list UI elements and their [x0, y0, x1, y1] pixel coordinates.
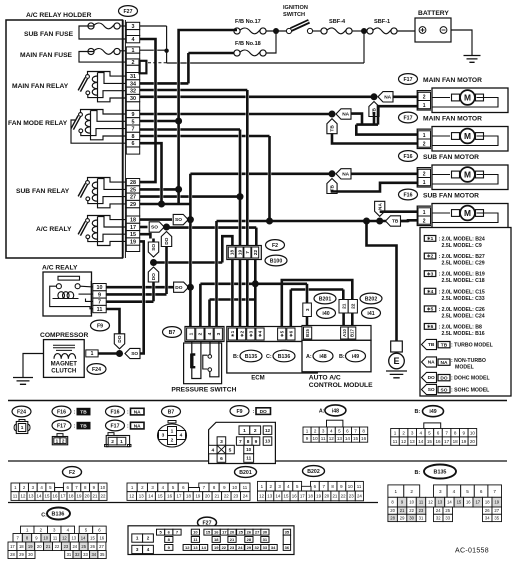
- svg-text:26: 26: [247, 530, 252, 535]
- NA arrow sub fan 2 (down): [375, 201, 385, 216]
- svg-text:3: 3: [132, 24, 135, 30]
- svg-text:M: M: [464, 170, 471, 180]
- svg-text:A:: A:: [306, 354, 312, 360]
- junction dot pin17: [163, 224, 170, 231]
- svg-text:∗4: ∗4: [258, 330, 263, 337]
- svg-text:C:: C:: [266, 354, 272, 360]
- svg-text:16: 16: [292, 494, 297, 499]
- svg-text:AC-01558: AC-01558: [455, 548, 489, 555]
- svg-text:13: 13: [71, 535, 76, 540]
- svg-text:DO: DO: [260, 409, 267, 415]
- svg-text:A/C REALY: A/C REALY: [42, 265, 78, 272]
- svg-text:2: 2: [423, 95, 426, 101]
- svg-text:14: 14: [418, 439, 424, 444]
- svg-text:6: 6: [220, 456, 223, 462]
- svg-text:13: 13: [193, 545, 198, 550]
- pressure switch contact 1-2: [191, 342, 193, 355]
- legend item DO dohc model: [422, 372, 437, 382]
- svg-text:NA: NA: [134, 423, 141, 429]
- svg-text:3: 3: [136, 547, 139, 552]
- svg-text:12: 12: [62, 535, 67, 540]
- svg-text:8: 8: [454, 430, 457, 435]
- wire NA chain to sub fan motor 1 pin2: [351, 173, 419, 176]
- svg-text:34: 34: [130, 81, 136, 87]
- svg-text:CLUTCH: CLUTCH: [51, 367, 76, 374]
- svg-text:F24: F24: [92, 367, 101, 373]
- svg-text:10: 10: [409, 500, 414, 505]
- svg-text:9: 9: [306, 436, 309, 441]
- holder pins 28,25,27,29 (sub fan relay): [126, 179, 139, 186]
- ECM pin row: [227, 327, 317, 342]
- TB arrow sub fan 2 (left): [386, 216, 401, 226]
- connector view F27 (bottom): [198, 517, 217, 528]
- svg-text:7: 7: [354, 429, 357, 434]
- connector oval i41: [362, 308, 381, 319]
- connector oval F24: [87, 364, 106, 375]
- svg-text:16: 16: [167, 494, 172, 499]
- svg-text:19: 19: [461, 439, 467, 444]
- svg-text:BATTERY: BATTERY: [418, 10, 449, 17]
- svg-text:20: 20: [470, 439, 476, 444]
- svg-text:16: 16: [361, 436, 367, 441]
- svg-text:: 2.0L MODEL: B19: : 2.0L MODEL: B19: [439, 272, 485, 278]
- section divider upper: [8, 400, 507, 402]
- svg-text:TB: TB: [428, 342, 435, 348]
- svg-text:10: 10: [232, 485, 237, 490]
- svg-text:19: 19: [130, 240, 136, 246]
- svg-text:3: 3: [216, 332, 222, 335]
- wire NA chain to main fan motor 1 pin1: [351, 114, 363, 125]
- svg-text:33: 33: [83, 552, 88, 557]
- svg-text:B:: B:: [415, 470, 421, 476]
- svg-text:3: 3: [322, 429, 325, 434]
- svg-text:ECM: ECM: [251, 375, 265, 382]
- NA arrow sub fan 1: [336, 169, 351, 179]
- junction dot fb17/fb18: [273, 28, 279, 34]
- svg-text:17: 17: [475, 500, 480, 505]
- E ground terminal box: [391, 341, 403, 352]
- svg-text:2: 2: [198, 332, 204, 335]
- svg-text:29: 29: [19, 552, 24, 557]
- svg-text:i48: i48: [319, 354, 326, 360]
- svg-text:1: 1: [395, 489, 398, 494]
- legend item TB turbo model: [422, 339, 437, 349]
- wire DO chain to a/c relay pin7 line: [152, 282, 155, 302]
- SO arrow pin17: [149, 222, 164, 232]
- connector oval B202 (top): [360, 293, 382, 304]
- pressure switch pin row B7: [185, 327, 224, 342]
- svg-text:31: 31: [263, 537, 268, 542]
- svg-text:B201: B201: [319, 296, 332, 302]
- svg-text:TB: TB: [441, 342, 448, 348]
- svg-text:DO: DO: [440, 375, 447, 381]
- DO arrow pin10: [174, 282, 189, 292]
- svg-text:18: 18: [308, 494, 313, 499]
- wire pin5 to bus: [140, 120, 179, 123]
- svg-text:: NON-TURBO: : NON-TURBO: [451, 358, 486, 364]
- wires B201/B202 pins to module: [306, 317, 309, 327]
- svg-text:2: 2: [171, 438, 174, 444]
- svg-text:A/C REALY: A/C REALY: [36, 226, 72, 233]
- svg-text:17: 17: [222, 530, 227, 535]
- wire pin18 to SO arrow: [140, 218, 172, 221]
- svg-text:23: 23: [419, 508, 424, 513]
- svg-text:7: 7: [98, 300, 101, 306]
- connector view F9:DO: [230, 406, 249, 417]
- svg-text:20: 20: [230, 530, 235, 535]
- svg-text:SO: SO: [175, 217, 182, 223]
- TB arrow main fan 1: [369, 102, 379, 117]
- svg-text:1: 1: [423, 103, 426, 109]
- svg-text:8: 8: [247, 439, 250, 445]
- svg-text:F9: F9: [236, 409, 242, 415]
- svg-text:34: 34: [485, 516, 490, 521]
- svg-text:12: 12: [401, 439, 407, 444]
- connector oval F9: [91, 320, 110, 331]
- svg-text:27: 27: [99, 544, 104, 549]
- TB arrow fan mode: [327, 119, 337, 134]
- connector view B201 (bottom): [235, 467, 257, 478]
- junction dot ECM *4 riser: [252, 280, 259, 287]
- legend box: [420, 228, 511, 397]
- connector oval B7: [163, 327, 182, 338]
- wire pin32 riser to F2 pin7: [140, 89, 248, 92]
- legend item *2: [424, 253, 436, 259]
- svg-text:16: 16: [466, 500, 471, 505]
- svg-text:E: E: [393, 356, 399, 366]
- svg-text:SUB FAN FUSE: SUB FAN FUSE: [24, 31, 74, 38]
- svg-text:B201: B201: [239, 470, 252, 476]
- connector view B202 (bottom): [303, 466, 325, 477]
- svg-text:24: 24: [72, 544, 77, 549]
- connector oval F2: [266, 240, 285, 251]
- svg-text:21: 21: [341, 303, 347, 309]
- svg-text:AUTO A/C: AUTO A/C: [309, 375, 341, 382]
- junction dot y221 NA branch: [376, 218, 383, 225]
- svg-text:6: 6: [480, 489, 483, 494]
- svg-text:10: 10: [97, 285, 103, 291]
- svg-text:21: 21: [214, 494, 219, 499]
- svg-text:NA: NA: [377, 203, 383, 210]
- auto a/c control module pin row: [302, 326, 371, 341]
- wire ignition feed bus (power to F/B No.17): [179, 30, 237, 204]
- svg-text:NA: NA: [342, 171, 349, 177]
- svg-text:2: 2: [111, 439, 114, 445]
- junction dot pin15 chain: [150, 259, 157, 266]
- pressure bus vertical: [189, 174, 192, 327]
- wire TB chain to main fan motor 2 pin2: [332, 133, 418, 143]
- svg-text:5: 5: [428, 430, 431, 435]
- sub fan motor 2 (F16): [399, 189, 418, 200]
- svg-text:12: 12: [185, 545, 190, 550]
- svg-text:18: 18: [130, 218, 136, 224]
- holder blank cells: [126, 30, 139, 36]
- svg-text:22: 22: [55, 544, 60, 549]
- B202 pins 21 22 boxes: [339, 300, 348, 314]
- svg-text:DO: DO: [117, 335, 123, 342]
- svg-text:5: 5: [229, 447, 232, 453]
- svg-text:DO: DO: [428, 375, 435, 381]
- svg-text:1: 1: [56, 438, 59, 443]
- legend item SO sohc model: [422, 384, 437, 394]
- svg-text:23: 23: [233, 494, 238, 499]
- svg-text:2.5L MODEL: C18: 2.5L MODEL: C18: [442, 278, 485, 284]
- a/c relay coil: [53, 298, 79, 300]
- svg-text:F2: F2: [69, 470, 75, 476]
- svg-text:15: 15: [45, 494, 50, 499]
- svg-text:SBF-1: SBF-1: [374, 19, 390, 25]
- svg-text:22: 22: [101, 494, 106, 499]
- TB arrow sub fan 1: [327, 179, 337, 194]
- main fan motor 2 (F17): [399, 112, 418, 123]
- wire E ground drop: [367, 221, 397, 341]
- wire pin15 line to F2 pin18: [154, 261, 223, 264]
- svg-text:11: 11: [13, 494, 18, 499]
- svg-text:33: 33: [445, 516, 450, 521]
- svg-text:SUB FAN MOTOR: SUB FAN MOTOR: [423, 192, 479, 199]
- connector view F24: [12, 406, 31, 417]
- svg-text:13: 13: [410, 439, 416, 444]
- svg-text:TB: TB: [330, 125, 336, 132]
- svg-text:10: 10: [348, 484, 353, 489]
- svg-text:28: 28: [390, 516, 395, 521]
- svg-text:20: 20: [205, 494, 210, 499]
- svg-text:F16: F16: [111, 409, 120, 415]
- svg-text:17: 17: [61, 494, 66, 499]
- legend item *3: [424, 271, 436, 277]
- svg-text:14: 14: [275, 494, 280, 499]
- wire pin17 line to F2 pin22: [167, 226, 257, 229]
- NA arrow main fan 1: [378, 92, 393, 102]
- svg-text:18: 18: [230, 250, 235, 256]
- svg-text:∗3: ∗3: [249, 330, 254, 337]
- svg-text:15: 15: [457, 500, 462, 505]
- junction dot sub fan 1: [329, 170, 336, 177]
- svg-text:12: 12: [259, 494, 264, 499]
- svg-text:27: 27: [494, 508, 499, 513]
- svg-text:B:: B:: [233, 354, 239, 360]
- svg-text:B135: B135: [434, 470, 447, 476]
- svg-text:20: 20: [85, 494, 90, 499]
- svg-text:10: 10: [246, 447, 252, 452]
- svg-text:1: 1: [91, 351, 94, 357]
- svg-text:9: 9: [463, 430, 466, 435]
- svg-text:24: 24: [436, 508, 441, 513]
- svg-text:2: 2: [402, 430, 405, 435]
- legend item NA non-turbo model: [422, 357, 437, 367]
- svg-text:∗2: ∗2: [239, 330, 244, 337]
- svg-text:3: 3: [305, 308, 311, 311]
- svg-text:6: 6: [437, 430, 440, 435]
- svg-text:34: 34: [271, 545, 276, 550]
- svg-text:2.5L MODEL: B16: 2.5L MODEL: B16: [442, 331, 485, 337]
- wire compressor pin1 to junction: [98, 352, 119, 355]
- svg-text:F24: F24: [17, 409, 26, 415]
- svg-text:9: 9: [132, 112, 135, 118]
- a/c relay contact circles: [56, 284, 61, 289]
- svg-text:2.5L MODEL: C24: 2.5L MODEL: C24: [442, 313, 485, 319]
- svg-text:4: 4: [132, 37, 135, 43]
- svg-text:A10: A10: [342, 328, 347, 336]
- svg-text:15: 15: [284, 494, 289, 499]
- DO arrow pin17: [161, 232, 171, 247]
- svg-text:26: 26: [90, 544, 95, 549]
- wire TB chain to sub fan motor 1 pin1: [332, 183, 419, 192]
- junction dot bus pin25: [175, 186, 182, 193]
- svg-text:25: 25: [81, 544, 86, 549]
- wire TB chain jog cluster: [373, 112, 376, 125]
- svg-text:i49: i49: [352, 354, 359, 360]
- svg-text:14: 14: [447, 500, 452, 505]
- svg-text:28: 28: [130, 180, 136, 186]
- svg-text:F/B No.17: F/B No.17: [235, 19, 261, 25]
- svg-text:3: 3: [220, 439, 223, 445]
- svg-text:DO: DO: [151, 273, 157, 280]
- wire a/c relay pin9: [106, 293, 166, 296]
- svg-text:22: 22: [224, 494, 229, 499]
- svg-text:24: 24: [238, 545, 243, 550]
- svg-text:i49: i49: [429, 409, 436, 415]
- SO arrow pin18: [173, 214, 188, 224]
- svg-text:∗4: ∗4: [427, 289, 434, 295]
- wire pin8 to drop: [140, 135, 270, 138]
- legend item *4: [424, 288, 436, 294]
- svg-text:20: 20: [324, 494, 329, 499]
- svg-text:∗5: ∗5: [279, 330, 284, 337]
- connector oval F27 (top): [119, 6, 138, 17]
- svg-text:NA: NA: [342, 112, 349, 118]
- svg-text:11: 11: [419, 500, 424, 505]
- wire pin30 to main fan motor 1 pin2: [140, 96, 374, 99]
- svg-text:32: 32: [436, 516, 441, 521]
- svg-text:18: 18: [186, 494, 191, 499]
- battery ground symbol: [464, 56, 481, 63]
- svg-text:20: 20: [37, 544, 42, 549]
- svg-text:∗5: ∗5: [427, 307, 434, 313]
- junction dot y221 pin8: [266, 218, 273, 225]
- DO arrow compressor (down): [114, 334, 124, 349]
- svg-text:NA: NA: [134, 409, 141, 415]
- svg-text:2: 2: [423, 172, 426, 178]
- wire to main fan motor 2 pin1: [356, 125, 419, 135]
- svg-text:13: 13: [438, 500, 443, 505]
- svg-text:25: 25: [238, 530, 243, 535]
- svg-text:11: 11: [243, 485, 248, 490]
- svg-text:10: 10: [193, 530, 198, 535]
- svg-text:17: 17: [10, 544, 15, 549]
- svg-text:9: 9: [98, 292, 101, 298]
- svg-text:7: 7: [245, 251, 250, 254]
- svg-text:F16: F16: [404, 192, 413, 198]
- svg-text:13: 13: [139, 494, 144, 499]
- svg-text:35: 35: [285, 530, 290, 535]
- svg-text:F9: F9: [97, 323, 103, 329]
- svg-text:3: 3: [439, 489, 442, 494]
- svg-text:11: 11: [357, 484, 362, 489]
- svg-text:4: 4: [207, 332, 213, 335]
- svg-text:MAIN FAN RELAY: MAIN FAN RELAY: [12, 83, 69, 90]
- svg-text:16: 16: [214, 530, 219, 535]
- svg-text:1: 1: [120, 439, 123, 445]
- svg-text:B7: B7: [169, 330, 176, 336]
- svg-text:4: 4: [211, 447, 214, 453]
- svg-text:TB: TB: [80, 409, 87, 415]
- svg-text:: 2.0L MODEL: C26: : 2.0L MODEL: C26: [439, 307, 485, 313]
- A/C relay holder box F27: [6, 20, 123, 258]
- svg-text:10: 10: [470, 430, 476, 435]
- svg-text:: 2.0L MODEL: B24: : 2.0L MODEL: B24: [439, 237, 485, 243]
- svg-text:14: 14: [148, 494, 153, 499]
- junction dot pin27: [237, 193, 244, 200]
- svg-text:4: 4: [180, 433, 183, 439]
- svg-text:SUB FAN MOTOR: SUB FAN MOTOR: [423, 154, 479, 161]
- section divider middle: [8, 460, 507, 462]
- svg-text:33: 33: [263, 545, 268, 550]
- svg-text:31: 31: [130, 74, 136, 80]
- svg-text:5: 5: [132, 119, 135, 125]
- svg-text:SO: SO: [131, 351, 138, 357]
- svg-text:34: 34: [91, 552, 96, 557]
- svg-text:31: 31: [419, 516, 424, 521]
- svg-text:21: 21: [230, 537, 235, 542]
- svg-text:17: 17: [177, 494, 182, 499]
- a/c relay contact bar: [58, 276, 80, 280]
- svg-text:1: 1: [423, 210, 426, 216]
- svg-text:SBF-4: SBF-4: [329, 19, 346, 25]
- wire pin15 to SO chain: [140, 234, 151, 238]
- svg-text:TB: TB: [80, 423, 87, 429]
- svg-text:30: 30: [130, 96, 136, 102]
- svg-text:14: 14: [201, 545, 206, 550]
- svg-text:30: 30: [409, 516, 414, 521]
- svg-text:12: 12: [265, 428, 271, 433]
- svg-text:NA: NA: [441, 360, 448, 366]
- svg-text:7: 7: [239, 439, 242, 445]
- svg-text:10: 10: [100, 485, 105, 490]
- svg-text:B136: B136: [278, 354, 291, 360]
- svg-text:: 2.0L MODEL: C15: : 2.0L MODEL: C15: [439, 289, 485, 295]
- svg-text:F17: F17: [111, 423, 120, 429]
- wire NA chain to sub fan motor 2 pin1: [380, 210, 418, 213]
- svg-text:9: 9: [255, 439, 258, 445]
- svg-text:SUB FAN RELAY: SUB FAN RELAY: [16, 188, 70, 195]
- svg-text:15: 15: [427, 439, 433, 444]
- junction dot fan mode: [329, 111, 336, 118]
- compressor ground symbol: [13, 378, 33, 385]
- svg-text:2: 2: [314, 429, 317, 434]
- svg-text:17: 17: [444, 439, 450, 444]
- pressure switch body: [184, 343, 222, 384]
- svg-text:24: 24: [243, 494, 248, 499]
- svg-text:COMPRESSOR: COMPRESSOR: [40, 332, 88, 339]
- svg-text:15: 15: [158, 494, 163, 499]
- svg-text:27: 27: [255, 530, 260, 535]
- svg-text:1: 1: [423, 133, 426, 139]
- svg-text:F17: F17: [404, 77, 413, 83]
- junction dot main fan 1: [371, 93, 378, 100]
- svg-text:4: 4: [330, 429, 333, 434]
- NA arrow fan mode: [336, 109, 351, 119]
- svg-text:7: 7: [493, 489, 496, 494]
- svg-text:2: 2: [423, 141, 426, 147]
- wire ignition row: [266, 30, 287, 32]
- junction dot pressure bus pin10: [187, 284, 194, 291]
- svg-text:18: 18: [19, 544, 24, 549]
- svg-text:1: 1: [188, 332, 194, 335]
- svg-text:F17: F17: [404, 115, 413, 121]
- connector view F16:NA F17:NA: [106, 406, 125, 417]
- svg-text:14: 14: [37, 494, 42, 499]
